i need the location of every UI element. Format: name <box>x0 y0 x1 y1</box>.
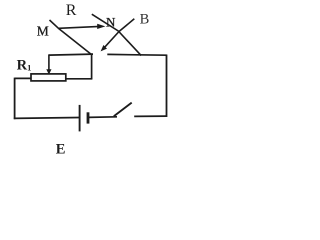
switch lever (open) <box>114 103 132 117</box>
wire right horizontal to right vertical <box>107 53 166 56</box>
slider B shaft <box>104 19 135 48</box>
R1 slider arrowhead <box>46 69 51 74</box>
wire switch to right corner <box>134 115 166 117</box>
rheostat R resistance wire M to N <box>59 26 100 28</box>
svg-text:E: E <box>56 141 66 157</box>
svg-text:B: B <box>140 11 150 27</box>
slider B arrowhead <box>101 45 107 51</box>
svg-text:M: M <box>37 23 49 38</box>
wire left vertical <box>14 78 16 120</box>
wire junction down <box>91 53 93 78</box>
wire R1 left terminal <box>15 77 32 79</box>
wire bottom left to battery <box>14 117 80 120</box>
svg-text:R1: R1 <box>17 58 32 74</box>
wire junction to R1 slider (horizontal) <box>49 54 93 55</box>
wire from N down to right wire <box>92 14 141 55</box>
wire right vertical <box>166 55 168 118</box>
R1 slider stem <box>48 54 50 70</box>
rheostat R end tick at M <box>50 20 60 29</box>
resistor R1 body <box>31 74 66 81</box>
arrowhead at N end of wire R <box>97 24 105 29</box>
svg-text:R: R <box>66 2 77 19</box>
wire from M down to junction <box>59 29 92 55</box>
wire to R1 right terminal <box>66 78 93 80</box>
battery E long plate <box>79 105 81 131</box>
battery E short plate <box>87 112 90 123</box>
wire battery to switch <box>88 116 117 119</box>
